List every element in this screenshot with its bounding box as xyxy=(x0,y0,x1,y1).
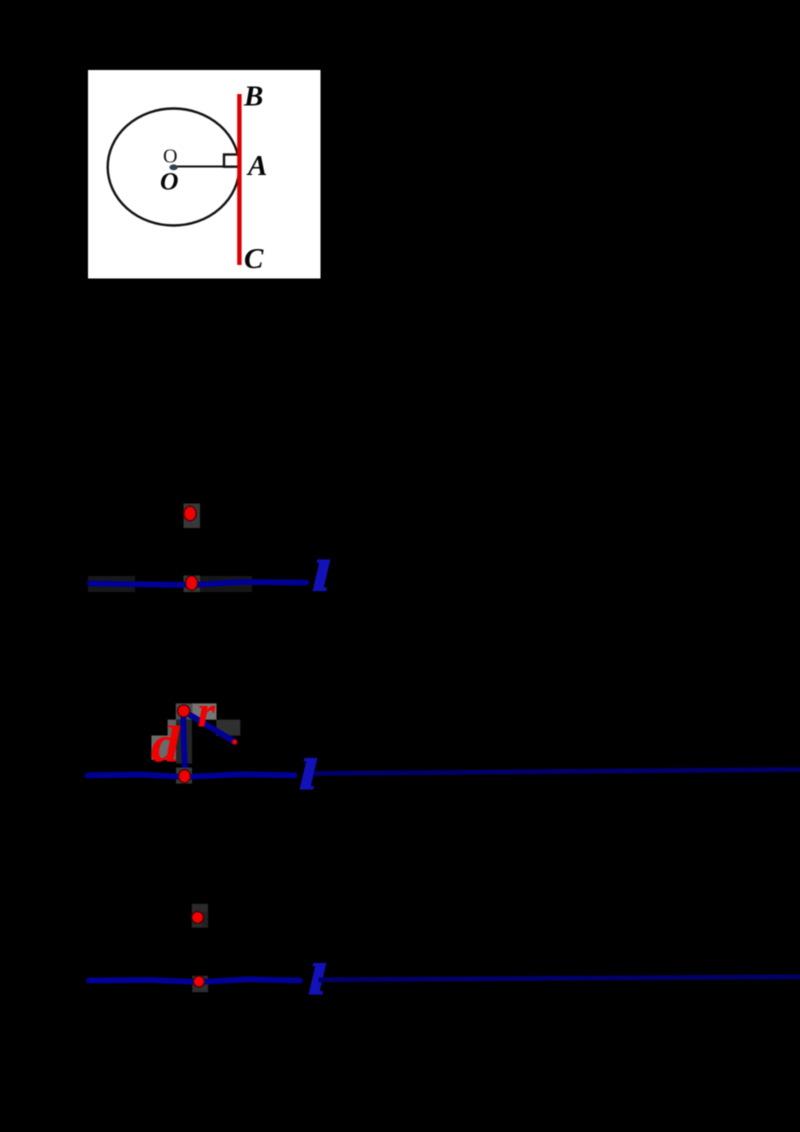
artifact block along radius segment xyxy=(216,720,240,736)
small red endpoint of r xyxy=(232,739,237,744)
point P1 (red dot above line 1) xyxy=(184,506,196,521)
artifact column behind point P3 xyxy=(192,904,208,928)
artifact block at foot F3 xyxy=(192,976,208,992)
line l (diagram 3, thick part) xyxy=(89,979,300,982)
svg-text:C: C xyxy=(244,243,264,275)
center dot of circle O xyxy=(169,164,177,170)
svg-text:d: d xyxy=(151,717,181,774)
white figure panel xyxy=(88,70,321,279)
foot point F1 (red dot on line 1) xyxy=(186,576,198,591)
artifact block above label d xyxy=(168,720,177,736)
foot point F2 (red dot on line 2) xyxy=(179,770,191,783)
artifact column under P2 xyxy=(176,720,192,764)
circle centered at O xyxy=(108,109,240,226)
artifact block behind point P2 xyxy=(176,703,192,719)
radius segment r (blue) xyxy=(188,714,234,742)
line l (diagram 1) xyxy=(90,582,306,585)
tangent line BC (red) xyxy=(237,94,241,265)
distance segment d (blue vertical) xyxy=(183,714,185,772)
radius OA line xyxy=(177,166,238,168)
artifact stripe along line 1 left xyxy=(88,576,135,592)
line 2 thin right extension xyxy=(314,770,800,774)
point P2 (red dot, circle center) xyxy=(178,705,190,717)
artifact blocks at foot F2 xyxy=(176,768,192,784)
artifact block behind label r xyxy=(192,703,216,719)
foot point F3 (red dot on line 3) xyxy=(193,976,204,987)
artifact block above point P1 xyxy=(184,504,201,529)
line 3 thin right extension xyxy=(319,977,800,980)
svg-text:A: A xyxy=(246,150,267,182)
line l (diagram 2, thick part) xyxy=(88,774,295,777)
artifact block at foot F1 xyxy=(184,576,201,593)
artifact block behind label d xyxy=(151,736,176,760)
svg-text:O: O xyxy=(160,169,179,196)
svg-text:O: O xyxy=(163,146,178,168)
svg-text:r: r xyxy=(198,688,216,737)
svg-text:l: l xyxy=(300,751,316,797)
point P3 (red dot above line 3) xyxy=(192,912,204,924)
svg-text:B: B xyxy=(243,81,263,113)
artifact block right of P3 xyxy=(202,912,208,927)
svg-text:l: l xyxy=(313,553,329,599)
artifact stripe along line 1 right xyxy=(200,576,252,592)
right-angle mark at A xyxy=(224,155,239,167)
